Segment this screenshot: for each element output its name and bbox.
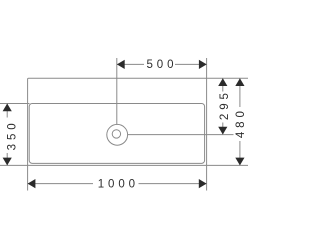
arrow 480 down — [235, 158, 244, 166]
arrow 500 left — [117, 60, 125, 69]
svg-text:295: 295 — [219, 89, 231, 120]
arrow 1000 left — [28, 179, 36, 188]
svg-text:480: 480 — [235, 107, 247, 138]
arrow 350 up — [3, 104, 12, 112]
arrow 295 down — [218, 127, 227, 135]
basin bowl inner outline — [29, 104, 204, 164]
arrow 1000 right — [199, 179, 207, 188]
arrow 350 down — [3, 158, 12, 166]
dimension line 1000 — [28, 183, 207, 185]
washbasin outer outline — [28, 78, 207, 165]
dimension line 480 — [239, 78, 241, 165]
svg-text:500: 500 — [147, 59, 178, 71]
extension line right edge down to 1000 dim — [206, 165, 208, 190]
arrow 295 up — [218, 78, 227, 86]
arrow 480 up — [235, 78, 244, 86]
extension line right edge up to 500 dim — [206, 58, 208, 78]
dimension line 500 — [117, 63, 207, 65]
extension line front edge extended right — [207, 164, 248, 166]
white gaps behind dimension texts — [1, 58, 247, 190]
extension line front edge extended left — [0, 164, 28, 166]
dimension line 295 — [222, 78, 224, 134]
extension line 350 top (bowl back edge extended left) — [0, 103, 30, 105]
dimension line 350 — [6, 104, 8, 166]
svg-text:350: 350 — [7, 119, 19, 150]
extension line drain centre to right — [128, 134, 234, 136]
arrow 500 right — [199, 60, 207, 69]
drain inner circle — [112, 130, 120, 138]
svg-text:1000: 1000 — [98, 179, 139, 191]
extension line top edge extended right — [207, 77, 248, 79]
extension line drain centre up to 500 dim — [116, 58, 118, 124]
drain outer circle — [107, 124, 128, 145]
extension line left edge down to 1000 dim — [27, 165, 29, 190]
